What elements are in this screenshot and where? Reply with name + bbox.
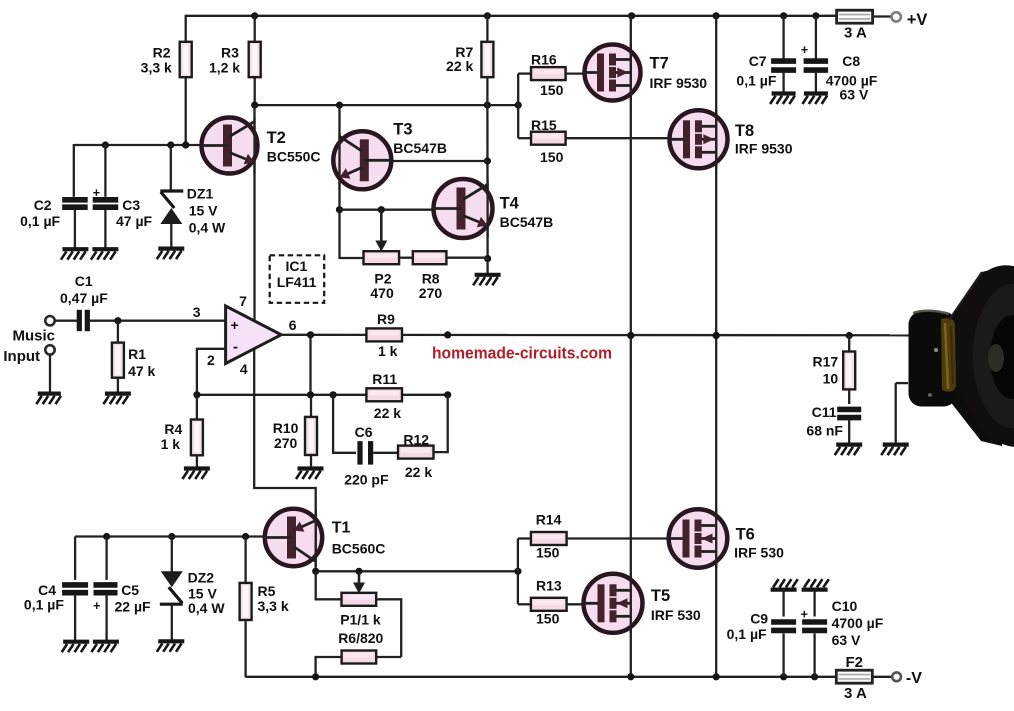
- wire C6 branch: [333, 395, 356, 453]
- wire overlay T1 column: [315, 509, 317, 567]
- svg-text:LF411: LF411: [277, 274, 317, 290]
- ground Music Input: [38, 392, 61, 396]
- svg-text:22 k: 22 k: [405, 464, 432, 480]
- ground DZ1: [158, 247, 184, 251]
- wire drain column T8-T6: [715, 16, 717, 677]
- svg-text:C4: C4: [38, 582, 56, 598]
- speaker: [949, 267, 1002, 446]
- svg-text:-: -: [233, 339, 238, 356]
- wire op-amp pin 2: [197, 349, 226, 395]
- svg-text:Input: Input: [3, 348, 40, 365]
- svg-text:Music: Music: [13, 328, 56, 345]
- ground C2: [62, 247, 88, 251]
- zener DZ2: [171, 537, 173, 575]
- wire R14 to T6 gate: [567, 537, 670, 539]
- wire R6 return: [376, 656, 401, 658]
- ground DZ2: [158, 639, 184, 643]
- svg-text:1 k: 1 k: [161, 436, 181, 452]
- svg-text:2: 2: [207, 352, 215, 368]
- svg-text:+: +: [231, 317, 239, 333]
- wire gate bracket upper: [517, 74, 519, 139]
- resistor R4: [196, 395, 198, 420]
- transistor T4: [434, 179, 493, 238]
- fuse F2: [836, 670, 872, 683]
- wire C6 to R12: [373, 452, 398, 454]
- wire P2 to R8: [399, 257, 413, 259]
- svg-text:1 k: 1 k: [378, 343, 398, 359]
- ground T4 emitter: [475, 273, 501, 277]
- transistor T2: [202, 118, 258, 174]
- svg-text:R10: R10: [273, 420, 299, 436]
- terminal Music Input signal: [45, 316, 54, 325]
- svg-text:0,1 µF: 0,1 µF: [20, 213, 60, 229]
- svg-text:C10: C10: [832, 598, 858, 614]
- svg-text:270: 270: [419, 285, 443, 301]
- ground C7: [772, 91, 796, 95]
- wire output node: [281, 334, 909, 337]
- svg-text:C3: C3: [122, 197, 140, 213]
- svg-text:22 µF: 22 µF: [115, 599, 152, 615]
- svg-text:P2: P2: [374, 270, 391, 286]
- svg-text:47 k: 47 k: [128, 363, 155, 379]
- svg-text:BC547B: BC547B: [393, 140, 447, 156]
- wire +V top rail: [186, 15, 836, 17]
- svg-text:3,3 k: 3,3 k: [258, 598, 289, 614]
- capacitor C9: [782, 589, 784, 617]
- svg-text:P1/1 k: P1/1 k: [340, 612, 381, 628]
- transistor T1: [265, 509, 322, 566]
- svg-text:C2: C2: [34, 197, 52, 213]
- svg-text:-V: -V: [906, 670, 922, 687]
- svg-text:C7: C7: [749, 53, 767, 69]
- svg-text:DZ2: DZ2: [188, 570, 215, 586]
- resistor R17: [848, 336, 850, 352]
- svg-text:R9: R9: [377, 311, 395, 327]
- wire overlay T5 column: [630, 574, 632, 634]
- wire overlay T3 column: [338, 132, 340, 190]
- svg-text:220 pF: 220 pF: [344, 471, 389, 487]
- resistor R6: [342, 651, 377, 664]
- svg-text:+: +: [93, 186, 100, 200]
- svg-text:C11: C11: [812, 404, 837, 420]
- ground C5: [93, 640, 119, 644]
- capacitor C4: [74, 537, 76, 580]
- resistor R14: [531, 532, 567, 545]
- svg-text:R1: R1: [128, 346, 146, 362]
- wire second rail: [255, 104, 519, 106]
- resistor R16: [531, 67, 566, 80]
- wire T2 base net: [74, 144, 203, 146]
- wire R16 to T7 gate: [566, 72, 586, 74]
- svg-text:R13: R13: [536, 578, 562, 594]
- mosfet T7 IRF9530: [585, 45, 641, 101]
- mosfet T8 IRF9530: [670, 110, 728, 168]
- wire R2 column: [185, 15, 187, 42]
- svg-text:BC547B: BC547B: [500, 214, 554, 230]
- svg-text:T6: T6: [736, 526, 755, 544]
- svg-text:R3: R3: [221, 44, 239, 60]
- svg-text:T1: T1: [332, 519, 351, 536]
- ground C4: [63, 640, 89, 644]
- svg-text:0,47 µF: 0,47 µF: [60, 290, 108, 306]
- mosfet T5 IRF530: [584, 574, 643, 633]
- capacitor C6: [357, 441, 362, 465]
- transistor T3: [333, 131, 391, 189]
- svg-text:C6: C6: [355, 424, 373, 440]
- svg-text:3 A: 3 A: [844, 25, 867, 42]
- resistor R7: [486, 15, 488, 42]
- svg-text:47 µF: 47 µF: [116, 213, 153, 229]
- wire P1 to R6: [376, 599, 401, 657]
- svg-text:+V: +V: [907, 11, 928, 29]
- resistor R2: [180, 42, 192, 77]
- svg-text:+: +: [801, 607, 808, 621]
- svg-text:0,1 µF: 0,1 µF: [24, 597, 64, 613]
- svg-text:22 k: 22 k: [374, 405, 401, 421]
- ground R10: [298, 466, 324, 470]
- wire output to feedback link: [309, 335, 311, 395]
- svg-text:R4: R4: [164, 421, 182, 437]
- capacitor C2: [73, 144, 75, 197]
- svg-text:0,1 µF: 0,1 µF: [727, 626, 767, 642]
- ground C11: [836, 443, 862, 447]
- resistor R8: [413, 251, 447, 264]
- resistor R10: [310, 395, 312, 417]
- wire -V bottom rail: [246, 676, 837, 678]
- svg-text:R14: R14: [536, 512, 562, 528]
- wire R8 to column: [446, 257, 487, 259]
- svg-text:R8: R8: [422, 270, 440, 286]
- zener DZ1: [170, 144, 172, 190]
- svg-text:10: 10: [823, 371, 839, 387]
- ground R1: [105, 392, 131, 396]
- svg-text:DZ1: DZ1: [187, 185, 214, 201]
- svg-text:C5: C5: [121, 582, 139, 598]
- wire speaker return: [896, 382, 908, 384]
- svg-text:R15: R15: [531, 117, 557, 133]
- wire overlay T7 column: [630, 44, 632, 101]
- capacitor C11: [837, 407, 861, 413]
- svg-text:63 V: 63 V: [840, 86, 869, 102]
- wire R12 to feedback node: [434, 395, 448, 452]
- wire T2 emitter-collector column to op-amp pin 7: [253, 105, 255, 321]
- svg-text:0,4 W: 0,4 W: [188, 600, 225, 616]
- resistor R5: [244, 537, 246, 583]
- wire T3 collector-emitter column: [338, 105, 340, 210]
- svg-text:150: 150: [540, 82, 564, 98]
- svg-text:IRF 530: IRF 530: [651, 607, 701, 623]
- svg-text:150: 150: [540, 149, 564, 165]
- resistor R9: [366, 328, 402, 341]
- resistor R11: [366, 388, 402, 401]
- capacitor C1: [77, 310, 82, 331]
- capacitor C5: [105, 537, 107, 580]
- resistor R13: [531, 598, 567, 611]
- svg-text:T3: T3: [393, 121, 412, 139]
- potentiometer P2: [380, 210, 383, 248]
- svg-text:C9: C9: [750, 610, 768, 626]
- ground C8: [804, 91, 828, 95]
- IC1 designation box: [270, 255, 325, 302]
- capacitor C7: [782, 16, 784, 59]
- wire overlay T2 column: [253, 118, 255, 174]
- fuse F1: [825, 15, 837, 17]
- svg-text:0,4 W: 0,4 W: [189, 219, 226, 235]
- svg-text:C1: C1: [75, 273, 93, 289]
- wire R15 to T8 gate: [566, 137, 671, 139]
- svg-text:470: 470: [370, 285, 394, 301]
- svg-text:F2: F2: [846, 654, 864, 671]
- svg-text:T5: T5: [651, 587, 670, 605]
- wire gate bracket lower: [517, 539, 519, 605]
- svg-text:IRF 9530: IRF 9530: [735, 140, 793, 156]
- svg-text:270: 270: [274, 435, 298, 451]
- svg-text:R11: R11: [372, 371, 397, 387]
- wire feedback line: [197, 394, 448, 396]
- svg-text:T8: T8: [735, 122, 754, 140]
- ground C3: [92, 247, 118, 251]
- resistor R12: [398, 446, 434, 459]
- svg-text:R6/820: R6/820: [338, 630, 383, 646]
- terminal Music Input ground: [45, 345, 54, 354]
- wire T1 base net: [75, 535, 266, 537]
- wire T1 collector row: [315, 510, 317, 571]
- wire input to C1: [55, 320, 77, 322]
- svg-text:3: 3: [193, 304, 201, 320]
- wire R7 column down: [486, 105, 489, 259]
- resistor R15: [531, 132, 566, 145]
- wire drain column T7-T5: [630, 16, 632, 677]
- capacitor C8: [815, 16, 817, 59]
- wire T4 base row: [340, 209, 435, 211]
- wire T3 base: [391, 160, 487, 162]
- wire overlay T6 column: [715, 509, 717, 568]
- ground C9 inverted: [771, 587, 797, 591]
- svg-text:IRF 530: IRF 530: [734, 544, 784, 560]
- svg-text:T7: T7: [650, 54, 669, 72]
- svg-text:150: 150: [536, 545, 560, 561]
- svg-text:15 V: 15 V: [189, 202, 218, 218]
- resistor R1: [117, 321, 119, 343]
- wire C1 to op-amp pin 3: [90, 320, 226, 322]
- resistor R3: [249, 42, 261, 77]
- svg-text:R2: R2: [153, 44, 171, 60]
- svg-text:3,3 k: 3,3 k: [141, 60, 172, 76]
- terminal -V: [892, 672, 901, 681]
- svg-text:1,2 k: 1,2 k: [209, 60, 240, 76]
- potentiometer P1: [316, 571, 342, 599]
- terminal +V: [892, 12, 901, 21]
- svg-text:T2: T2: [267, 129, 286, 147]
- svg-text:IRF 9530: IRF 9530: [650, 75, 708, 91]
- mosfet T6 IRF530: [669, 509, 728, 568]
- svg-text:R5: R5: [258, 583, 276, 599]
- svg-text:+: +: [801, 43, 808, 57]
- wire overlay T8 column: [715, 110, 717, 169]
- svg-text:homemade-circuits.com: homemade-circuits.com: [432, 344, 612, 362]
- capacitor C3: [104, 144, 106, 197]
- svg-text:63 V: 63 V: [832, 632, 861, 648]
- svg-text:4700 µF: 4700 µF: [832, 615, 884, 631]
- ground R4: [184, 466, 210, 470]
- svg-text:3 A: 3 A: [844, 685, 867, 702]
- svg-text:R17: R17: [813, 354, 839, 370]
- wire op-amp pin 4 to T1 emitter: [254, 348, 316, 510]
- svg-text:BC560C: BC560C: [332, 540, 386, 556]
- svg-text:R16: R16: [531, 51, 557, 67]
- svg-text:4: 4: [240, 361, 248, 377]
- capacitor C10: [813, 589, 815, 617]
- ground speaker: [883, 443, 909, 447]
- svg-text:R12: R12: [403, 432, 429, 448]
- ground C10 inverted: [802, 587, 828, 591]
- wire R3 column: [254, 15, 256, 42]
- svg-text:+: +: [93, 599, 100, 613]
- svg-text:BC550C: BC550C: [267, 149, 321, 165]
- svg-text:C8: C8: [842, 53, 860, 69]
- op-amp IC1 LF411: [226, 306, 282, 364]
- wire overlay T4 column: [486, 180, 488, 238]
- svg-text:IC1: IC1: [286, 258, 308, 274]
- svg-text:0,1 µF: 0,1 µF: [736, 72, 776, 88]
- svg-text:6: 6: [289, 317, 297, 333]
- wire R13 to T5 gate: [567, 603, 585, 605]
- svg-text:150: 150: [536, 611, 560, 627]
- svg-text:7: 7: [239, 293, 247, 309]
- svg-text:T4: T4: [500, 194, 520, 212]
- svg-text:68 nF: 68 nF: [806, 423, 843, 439]
- svg-text:22 k: 22 k: [446, 58, 473, 74]
